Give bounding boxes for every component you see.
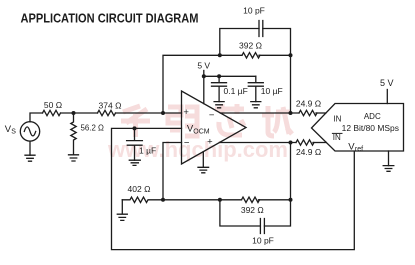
wire ADC ground lead	[388, 151, 390, 166]
label VOCM	[187, 124, 210, 136]
ground 402 ohm	[117, 200, 127, 221]
svg-text:10 pF: 10 pF	[252, 235, 274, 245]
svg-text:392 Ω: 392 Ω	[241, 205, 264, 215]
wire op-amp -input to bottom node	[163, 143, 182, 200]
svg-text:+: +	[207, 137, 213, 148]
svg-text:5 V: 5 V	[380, 78, 394, 88]
wire VOCM to Vref loop	[112, 128, 355, 249]
wire 24.9 bottom to ADC INbar	[313, 142, 326, 144]
svg-text:10 µF: 10 µF	[261, 86, 283, 96]
wire top rail right	[259, 54, 291, 56]
ground under 10uF	[251, 102, 261, 108]
wire 24.9 top to ADC IN	[316, 112, 326, 114]
watermark char 3	[215, 104, 244, 135]
resistor 24.9 ohm bottom	[296, 140, 314, 145]
svg-text:50 Ω: 50 Ω	[44, 100, 62, 110]
node +input junction	[161, 111, 165, 115]
node 402 junction	[161, 198, 165, 202]
capacitor 10uF	[248, 76, 263, 101]
capacitor 1uF	[127, 128, 143, 160]
wire 10pF bottom loop left	[220, 200, 261, 226]
svg-text:1 µF: 1 µF	[139, 146, 156, 156]
svg-text:IN: IN	[333, 115, 341, 124]
svg-text:−: −	[209, 110, 215, 121]
ground under 56.2 ohm	[69, 155, 79, 161]
wire feedback bottom right leg	[290, 143, 292, 200]
node junction after 50 ohm	[72, 111, 76, 115]
capacitor 10pF bottom	[260, 219, 264, 234]
resistor 392 ohm top	[242, 53, 260, 58]
resistor 392 ohm bottom	[242, 197, 260, 202]
svg-text:12 Bit/80 MSps: 12 Bit/80 MSps	[342, 124, 399, 133]
source VS sine wave	[24, 127, 35, 136]
node top output junction	[289, 111, 293, 115]
svg-text:10 pF: 10 pF	[243, 6, 265, 16]
svg-text:APPLICATION CIRCUIT DIAGRAM: APPLICATION CIRCUIT DIAGRAM	[21, 11, 199, 26]
node top rail right	[289, 53, 293, 57]
svg-text:24.9 Ω: 24.9 Ω	[296, 99, 321, 109]
node 5V branch	[202, 74, 206, 78]
wire VS top lead	[30, 113, 43, 122]
svg-text:ref: ref	[355, 146, 363, 153]
wire op-amp top output	[220, 112, 299, 114]
wire 5V supply to op-amp	[203, 71, 205, 104]
node top rail left	[218, 53, 222, 57]
svg-text:392 Ω: 392 Ω	[239, 41, 262, 51]
node bottom rail left	[218, 198, 222, 202]
watermark char 4	[262, 106, 292, 136]
wire 374ohm to op-amp +input	[116, 112, 182, 114]
svg-text:OCM: OCM	[193, 128, 210, 135]
resistor 50 ohm	[43, 110, 61, 115]
resistor 402 ohm	[122, 197, 163, 202]
wire op-amp bottom output	[220, 142, 297, 144]
svg-text:24.9 Ω: 24.9 Ω	[296, 147, 321, 157]
svg-text:0.1 µF: 0.1 µF	[224, 86, 248, 96]
wire decoupling branch	[204, 75, 256, 77]
ground op-amp	[198, 152, 209, 173]
wire 10pF top loop left	[220, 29, 259, 56]
ground under 0.1uF	[214, 102, 224, 108]
wire feedback top right leg	[290, 55, 292, 113]
capacitor 10pF top	[259, 21, 263, 37]
node bottom rail right	[289, 198, 293, 202]
ADC U2 body	[312, 104, 404, 152]
wire bottom rail left	[163, 199, 242, 201]
wire 10pF top loop right	[263, 29, 291, 56]
node 1uF junction	[133, 126, 137, 130]
wire VS bottom lead	[29, 141, 31, 155]
label IN bottom with overline	[333, 133, 341, 142]
resistor 56.2 ohm (vertical)	[71, 113, 76, 155]
node 0.1uF top	[217, 74, 221, 78]
label Vref	[348, 141, 363, 153]
svg-text:−: −	[184, 138, 190, 149]
svg-text:ADC: ADC	[364, 112, 381, 121]
svg-text:+: +	[183, 107, 189, 118]
wire feedback top left leg	[163, 55, 220, 113]
ground under 1uF	[129, 160, 140, 165]
capacitor 0.1uF	[212, 76, 227, 101]
op-amp U1 triangle	[182, 91, 247, 164]
wire top rail left	[220, 54, 242, 56]
resistor 24.9 ohm top	[299, 110, 317, 115]
svg-text:S: S	[11, 129, 16, 136]
watermark char 2	[168, 107, 197, 136]
node bottom output junction	[289, 141, 293, 145]
ground under VS	[25, 155, 35, 161]
svg-text:IN: IN	[333, 133, 341, 142]
ground ADC	[383, 166, 394, 172]
wire 5V to ADC	[386, 90, 388, 104]
svg-text:402 Ω: 402 Ω	[128, 184, 151, 194]
resistor 374 ohm	[98, 110, 116, 115]
wire bottom rail right	[259, 199, 291, 201]
label VS	[5, 124, 16, 136]
svg-text:56.2 Ω: 56.2 Ω	[81, 123, 104, 133]
svg-text:374 Ω: 374 Ω	[99, 100, 122, 110]
watermark char 1	[121, 106, 150, 137]
svg-text:5 V: 5 V	[197, 60, 210, 70]
wire 10pF bottom loop right	[264, 200, 290, 226]
wire 50ohm to 374ohm	[61, 112, 98, 114]
source VS circle	[20, 122, 39, 141]
